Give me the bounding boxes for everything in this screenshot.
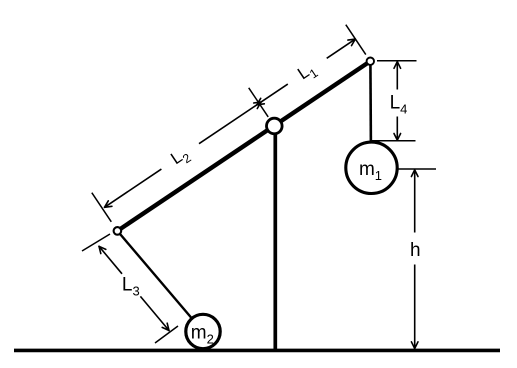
arrowhead L4 top	[394, 62, 397, 69]
arrowhead L3 top	[99, 246, 101, 253]
extension tick for L3 near pivot	[82, 234, 110, 251]
arrowhead L4 bottom	[397, 134, 400, 141]
arrowhead L2 right	[254, 102, 261, 103]
ground line	[14, 349, 500, 353]
arrowhead h bottom	[415, 342, 418, 349]
dimension line h (lower segment)	[414, 265, 416, 349]
arrowhead L1 right	[348, 39, 355, 40]
arrowhead L1 left	[257, 104, 264, 105]
mass m2 circle	[186, 314, 220, 348]
dimension line L4 (lower segment)	[396, 117, 398, 141]
dimension line L2 (right segment)	[199, 102, 261, 144]
extension line at top pivot level (L4 top)	[377, 60, 417, 62]
dimension line L3 (lower segment)	[140, 296, 169, 330]
rope from left pivot to m2	[117, 231, 203, 332]
svg-text:h: h	[410, 240, 421, 261]
arrowhead h top	[411, 170, 414, 177]
lower-left pivot	[114, 227, 122, 235]
dimension line L1 (right segment)	[327, 39, 356, 58]
top-right pivot	[367, 58, 374, 65]
arrowhead L3 bottom	[167, 323, 169, 330]
vertical post	[273, 127, 277, 349]
dimension line L4 (upper segment)	[396, 62, 398, 90]
extension line at top-right pivot	[346, 25, 366, 55]
extension line at lower-left pivot	[92, 193, 112, 222]
rope from top pivot to m1	[369, 61, 372, 145]
beam (lever arm)	[117, 61, 370, 231]
center pivot on post	[267, 118, 283, 134]
arrowhead L2 left	[105, 206, 112, 207]
dimension line L1 (left segment)	[257, 84, 288, 105]
dimension line L3 (upper segment)	[99, 246, 122, 273]
mass m1 circle	[346, 142, 397, 193]
extension line at m1 top (L4 bottom)	[371, 140, 416, 142]
dimension line L2 (left segment)	[105, 169, 162, 207]
extension line at m1 centre (h top)	[398, 168, 437, 170]
dimension line h (upper segment)	[414, 170, 416, 233]
extension tick for L3 near m2	[155, 326, 178, 343]
extension line at center pivot	[249, 88, 269, 117]
